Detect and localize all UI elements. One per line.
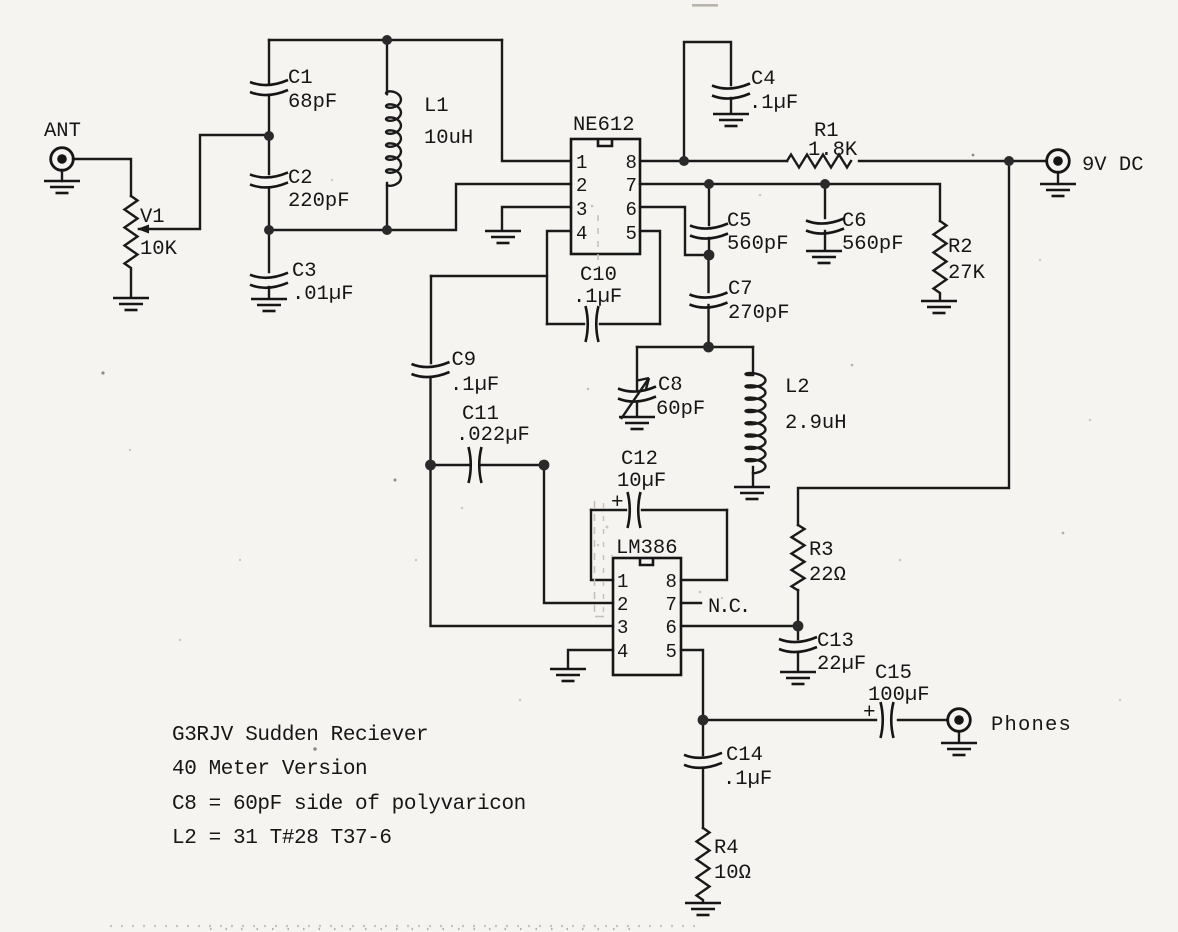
svg-text:7: 7: [666, 594, 677, 616]
svg-text:G3RJV Sudden Reciever: G3RJV Sudden Reciever: [172, 724, 428, 747]
svg-text:.1µF: .1µF: [573, 286, 622, 309]
svg-text:1: 1: [576, 152, 587, 174]
svg-text:100µF: 100µF: [868, 684, 930, 707]
svg-text:.1µF: .1µF: [450, 374, 499, 397]
svg-text:40 Meter Version: 40 Meter Version: [172, 758, 367, 781]
svg-text:C15: C15: [875, 662, 912, 685]
svg-text:1.8K: 1.8K: [808, 139, 858, 162]
svg-text:22µF: 22µF: [817, 653, 866, 676]
svg-text:2: 2: [576, 175, 587, 197]
svg-text:L2: L2: [785, 376, 810, 399]
svg-text:270pF: 270pF: [728, 302, 790, 325]
svg-text:N.C.: N.C.: [708, 596, 749, 619]
svg-text:4: 4: [617, 641, 628, 663]
svg-text:.1µF: .1µF: [749, 92, 798, 115]
svg-text:C1: C1: [288, 67, 313, 90]
svg-text:10µF: 10µF: [617, 470, 666, 493]
svg-text:22Ω: 22Ω: [809, 564, 846, 587]
svg-text:5: 5: [666, 641, 677, 663]
svg-text:L2 = 31 T#28 T37-6: L2 = 31 T#28 T37-6: [172, 827, 392, 850]
svg-text:6: 6: [626, 199, 637, 221]
svg-text:68pF: 68pF: [288, 91, 337, 114]
svg-text:27K: 27K: [948, 262, 986, 285]
svg-text:C14: C14: [726, 744, 763, 767]
svg-text:60pF: 60pF: [656, 398, 705, 421]
svg-text:.1µF: .1µF: [723, 768, 772, 791]
svg-text:+: +: [863, 702, 876, 725]
svg-text:2: 2: [617, 594, 628, 616]
svg-text:Phones: Phones: [991, 714, 1072, 737]
svg-text:C5: C5: [727, 210, 752, 233]
svg-text:LM386: LM386: [616, 537, 678, 560]
svg-text:.022µF: .022µF: [456, 424, 530, 447]
svg-text:C8: C8: [658, 374, 683, 397]
svg-text:C8 = 60pF side of polyvaricon: C8 = 60pF side of polyvaricon: [172, 793, 526, 816]
svg-text:+: +: [611, 492, 624, 515]
svg-text:C3: C3: [292, 260, 317, 283]
svg-text:8: 8: [666, 571, 677, 593]
svg-text:.01µF: .01µF: [292, 283, 354, 306]
svg-text:6: 6: [666, 617, 677, 639]
svg-text:C9: C9: [452, 349, 477, 372]
svg-text:3: 3: [576, 199, 587, 221]
svg-text:1: 1: [617, 571, 628, 593]
svg-text:10Ω: 10Ω: [714, 862, 751, 885]
svg-text:R4: R4: [714, 837, 739, 860]
svg-text:L1: L1: [424, 95, 449, 118]
svg-text:R2: R2: [948, 236, 973, 259]
svg-text:C13: C13: [817, 630, 854, 653]
svg-text:5: 5: [626, 223, 637, 245]
svg-text:C6: C6: [842, 210, 867, 233]
svg-text:R3: R3: [809, 539, 834, 562]
svg-text:NE612: NE612: [573, 114, 635, 137]
svg-text:10uH: 10uH: [424, 127, 473, 150]
svg-text:C12: C12: [621, 448, 658, 471]
svg-text:C4: C4: [751, 68, 776, 91]
svg-text:C7: C7: [728, 278, 753, 301]
svg-text:10K: 10K: [140, 238, 178, 261]
svg-text:220pF: 220pF: [288, 190, 350, 213]
svg-text:8: 8: [626, 152, 637, 174]
svg-text:C11: C11: [462, 403, 499, 426]
svg-text:560pF: 560pF: [842, 233, 904, 256]
svg-text:ANT: ANT: [44, 120, 81, 143]
svg-text:560pF: 560pF: [727, 233, 789, 256]
svg-text:7: 7: [626, 175, 637, 197]
svg-text:4: 4: [576, 223, 587, 245]
svg-text:V1: V1: [140, 206, 165, 229]
svg-text:3: 3: [617, 617, 628, 639]
svg-text:2.9uH: 2.9uH: [785, 412, 847, 435]
svg-text:9V DC: 9V DC: [1082, 154, 1144, 177]
svg-text:C2: C2: [288, 167, 313, 190]
